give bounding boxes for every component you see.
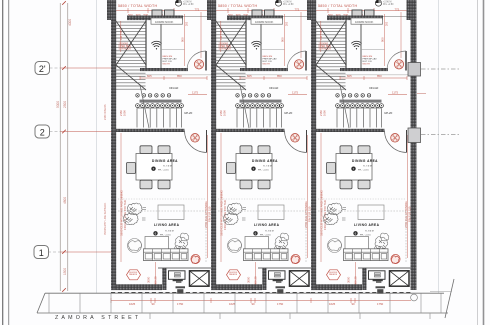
sidewalk right top notch [430,291,452,293]
unit 2 [207,0,311,306]
unit 3 [307,0,411,306]
sidewalk top edge [45,292,444,294]
red dims left of unit1 wall [104,104,107,120]
grid line 1 [60,251,113,253]
meter box on right wall [408,63,421,77]
grid bubble 1 [34,246,49,259]
frame border left outer [2,0,4,325]
grid bubble 2' [35,62,50,75]
svg-text:4000: 4000 [68,19,72,26]
dim text 2500 [63,101,67,108]
utility dashed line upper [421,68,461,70]
svg-text:2150 RISERS: 2150 RISERS [104,104,107,120]
grid line 2 leader [50,131,61,133]
box on right wall lower [408,128,421,143]
svg-text:2500: 2500 [63,101,67,108]
sidewalk right cut [445,279,454,318]
frame border left inner [8,0,10,325]
dim text 4000 [68,19,72,26]
svg-text:4800: 4800 [63,197,67,204]
grid line 2' [60,67,113,69]
dim slashes [62,1,66,292]
property line right [438,0,440,293]
svg-text:2': 2' [39,64,46,74]
grid line 2 [60,131,113,133]
svg-text:1: 1 [39,248,44,258]
vertical dim line B [67,3,69,291]
grid circle bottom right [411,294,418,301]
sidewalk joints [49,293,441,313]
short red line right [417,93,426,95]
dim text 5000 [56,101,60,108]
utility dashed line lower [421,134,461,136]
property line left [96,0,98,293]
dim text 4800 [63,197,67,204]
vertical dim line A [59,3,61,291]
svg-text:2: 2 [40,127,45,137]
svg-text:1500: 1500 [63,268,67,275]
svg-text:ZAMORA STREET: ZAMORA STREET [55,315,141,321]
curb ticks below [150,313,430,319]
sidewalk left cut [37,293,45,313]
svg-text:PROPERTY LINE SETBACK: PROPERTY LINE SETBACK [104,202,107,235]
unit 1 [107,0,211,306]
exterior wall right top stub [407,0,417,20]
grid bubble 2 [35,125,50,138]
svg-text:5000: 5000 [56,101,60,108]
frame border right inner [477,0,479,325]
dim text 1500 [63,268,67,275]
sidewalk bottom edge [37,312,448,314]
frame border right [483,0,485,325]
grid line 2' leader [50,67,61,69]
exterior wall right [411,0,417,290]
grid line 1 leader [48,251,60,253]
